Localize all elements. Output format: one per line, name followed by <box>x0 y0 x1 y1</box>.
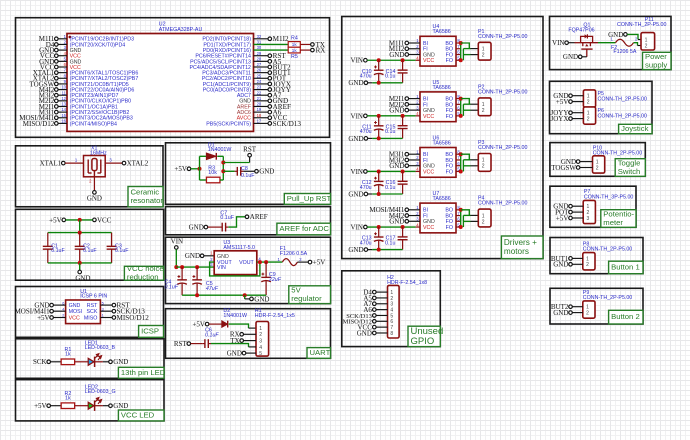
wire VIN to Q1 <box>568 42 580 44</box>
ground GND (power supply) <box>608 31 627 39</box>
node M3I1 (U2 left pin 14) <box>39 109 58 117</box>
svg-text:XTAL1: XTAL1 <box>40 160 62 168</box>
green label Drivers + motors <box>501 236 543 259</box>
svg-text:GPIO: GPIO <box>411 336 435 347</box>
svg-text:GND: GND <box>75 275 90 283</box>
node M3I2 (U6 FI) <box>389 156 409 164</box>
svg-text:+5V: +5V <box>192 321 205 329</box>
section frame MCU <box>16 18 330 138</box>
svg-text:VIN: VIN <box>217 265 226 271</box>
pin 5 GND of U2 <box>64 56 82 65</box>
connector P6 body <box>583 107 647 124</box>
ground GND (P5) <box>553 92 572 100</box>
pin 30 PD0(RXD/PCINT16) of U2 <box>203 45 262 54</box>
svg-text:11: 11 <box>62 90 67 95</box>
node JOYX (U2 right pin 24) <box>268 80 292 88</box>
svg-text:VIN: VIN <box>552 39 564 47</box>
wire U2 pin 29 <box>254 55 269 57</box>
svg-text:22: 22 <box>257 90 262 95</box>
svg-text:R5: R5 <box>291 54 298 60</box>
svg-text:GND: GND <box>553 309 568 317</box>
svg-text:GND: GND <box>389 51 404 59</box>
svg-text:GND: GND <box>348 79 363 87</box>
wire R3 to right rail <box>220 179 223 181</box>
pin 22 ADC7 of U2 <box>237 90 262 99</box>
wire GND tap (5V reg) <box>245 295 250 299</box>
ground GND (U6 pin3) <box>389 162 408 170</box>
svg-text:32: 32 <box>257 34 262 39</box>
motor driver U4 TA6586 body <box>416 24 460 66</box>
wire U6 output stubs <box>456 154 461 171</box>
wire C6 to H1 pin4 <box>211 344 256 347</box>
wire U2 pin 1 <box>58 38 67 40</box>
node M2I1 (U5 BI) <box>389 95 409 103</box>
node M1I2 (U4 FI) <box>389 45 409 53</box>
node RX <box>311 46 326 54</box>
wire C7 to AREF <box>228 217 245 227</box>
svg-text:VIN: VIN <box>351 112 363 120</box>
svg-text:SCK: SCK <box>33 358 47 366</box>
svg-text:GND: GND <box>259 168 274 176</box>
wire U2 pin 20 <box>254 105 269 107</box>
svg-text:SCK/D13: SCK/D13 <box>273 120 302 128</box>
section frame UART <box>166 309 331 359</box>
connector P2 CONN-TH_2P-P5.00 <box>478 85 528 116</box>
wire VCC to H2 pin 7 <box>376 326 387 328</box>
svg-text:2: 2 <box>482 219 485 225</box>
pin 32 PD2(INT0/PCINT18) of U2 <box>202 34 262 43</box>
svg-text:+5V: +5V <box>37 314 50 322</box>
pin 18 AVCC of U2 <box>237 113 262 122</box>
wire U2 pin 5 <box>58 60 67 62</box>
svg-text:VCC LED: VCC LED <box>121 411 155 420</box>
ground GND (UART) <box>227 350 246 358</box>
node JOYY (P6) <box>551 109 573 117</box>
node RST (ICSP) <box>112 302 130 310</box>
svg-text:CONN-TH_2P-P5.00: CONN-TH_2P-P5.00 <box>478 201 528 207</box>
svg-text:RST: RST <box>87 303 98 309</box>
svg-text:LED-0603_B: LED-0603_B <box>85 345 116 351</box>
svg-text:VCC: VCC <box>69 315 80 321</box>
svg-text:4: 4 <box>259 345 262 351</box>
wire cap ground rail (U5) <box>368 136 403 140</box>
wire U2 pin 30 RXD to R5 <box>254 49 289 51</box>
svg-text:M1I2: M1I2 <box>273 35 289 43</box>
svg-text:VCC: VCC <box>423 225 434 231</box>
node GND (U2 left pin 3) <box>39 46 58 54</box>
wire U4 output stubs <box>456 43 461 60</box>
wire Q1 to F2 <box>598 42 616 44</box>
svg-text:FO: FO <box>446 114 453 120</box>
svg-text:RST: RST <box>243 146 257 154</box>
svg-text:ATMEGA328P-AU: ATMEGA328P-AU <box>159 27 203 33</box>
svg-text:Button 2: Button 2 <box>611 312 640 321</box>
ground GND (P8) <box>553 261 572 269</box>
svg-text:GND: GND <box>113 358 128 366</box>
svg-text:CONN-TH_2P-P5.00: CONN-TH_2P-P5.00 <box>593 151 643 157</box>
svg-text:GND: GND <box>113 402 128 410</box>
wire U2 pin 7 <box>58 72 67 74</box>
fuse F2 F1206 5A <box>611 37 639 56</box>
svg-text:3: 3 <box>587 216 590 222</box>
svg-text:CONN-TH_2P-P5.00: CONN-TH_2P-P5.00 <box>583 295 633 301</box>
wire JOYX to P6 pin 2 <box>572 118 583 120</box>
green label Potentiometer <box>601 209 636 227</box>
svg-text:VCC: VCC <box>423 114 434 120</box>
wire RST down <box>249 157 251 163</box>
svg-text:25: 25 <box>257 73 262 78</box>
section frame Pull_Up RST <box>166 143 331 205</box>
svg-text:Pull_Up RST: Pull_Up RST <box>287 194 332 203</box>
wire C8 to GND (pullup) <box>243 170 254 172</box>
wire U2 pin 25 <box>254 77 269 79</box>
svg-text:VIN: VIN <box>351 223 363 231</box>
wire cap ground rail (U7) <box>368 248 403 252</box>
wire U2 pin 14 <box>58 111 67 113</box>
pin 29 PC6/RESET#/PCINT14 of U2 <box>195 51 262 60</box>
green label Button 1 <box>609 261 643 274</box>
capacitor C12 470u <box>360 171 384 194</box>
node BUT2 (U2 right pin 27) <box>268 63 291 71</box>
pin 1 (PCINT19/OC2B/INT1)PD3 of U2 <box>64 34 134 43</box>
wire GND to U7 pin3 <box>409 220 420 222</box>
wire TX to H1 pin3 <box>244 340 257 342</box>
section frame Toggle Switch <box>550 143 645 177</box>
wire cap ground rail (U4) <box>368 81 403 85</box>
capacitor C15 0.1u <box>385 116 408 139</box>
node TOGSW (U2 left pin 9) <box>30 80 59 88</box>
svg-text:VIN: VIN <box>351 57 363 65</box>
wire +5V to VCC rail <box>66 218 93 222</box>
wire U2 pin 28 <box>254 60 269 62</box>
svg-text:MISO: MISO <box>84 315 98 321</box>
svg-text:2: 2 <box>482 108 485 114</box>
svg-text:1N4001W: 1N4001W <box>223 313 247 319</box>
svg-text:FQP47P06: FQP47P06 <box>568 28 594 34</box>
wire ICSP left pin 1 <box>53 310 65 312</box>
connector P9 body <box>583 290 633 318</box>
node D4 (unused GPIO) <box>363 289 376 297</box>
wire R4 to TX <box>300 43 310 45</box>
svg-text:Joystick: Joystick <box>621 124 648 133</box>
wire GND to U4 pin3 <box>409 54 420 56</box>
wire ICSP right pin 1 <box>100 310 112 312</box>
wire U2 pin 9 <box>58 83 67 85</box>
wire M2I2 to U5 pin2 <box>409 103 420 105</box>
capacitor C14 0.1u <box>385 60 408 83</box>
node A6 (U2 right pin 19) <box>268 109 282 117</box>
ground GND (pullup) <box>255 168 275 176</box>
wire U2 pin 2 <box>58 43 67 45</box>
resistor R1 1k <box>61 347 75 364</box>
svg-text:VIN: VIN <box>171 237 183 245</box>
section frame Joystick <box>550 81 653 133</box>
wire bottom rail (5V reg) <box>182 293 266 297</box>
capacitor C17 0.1u <box>385 227 408 250</box>
LED LED1 LED-0603_B <box>85 341 116 367</box>
node VIN (5V reg) <box>171 237 183 249</box>
svg-text:0.1u: 0.1u <box>385 74 395 80</box>
svg-text:10k: 10k <box>208 170 217 176</box>
node XTAL2 (U2 left pin 8) <box>33 75 58 83</box>
svg-text:0.1uF: 0.1uF <box>205 333 219 339</box>
wire JOYY to P6 pin 1 <box>572 112 583 114</box>
wire U2 pin 32 <box>254 38 269 40</box>
svg-text:AREF: AREF <box>250 213 268 221</box>
svg-text:Drivers +: Drivers + <box>504 238 537 247</box>
svg-text:GND: GND <box>348 246 363 254</box>
svg-text:CONN-TH_2P-P5.00: CONN-TH_2P-P5.00 <box>478 145 528 151</box>
wire to GND (VCC noise) <box>79 263 81 270</box>
motor driver U5 TA6586 body <box>416 80 460 122</box>
node M4I2 (U2 left pin 10) <box>39 86 58 94</box>
wire U2 pin 17 <box>254 122 269 124</box>
svg-text:TOGSW: TOGSW <box>551 164 576 172</box>
node +5V (5V reg out) <box>308 259 325 267</box>
svg-text:GND: GND <box>69 303 81 309</box>
section frame AREF for ADC <box>166 207 331 235</box>
resistor R3 10k <box>206 165 220 183</box>
svg-text:CONN-TH_3P-P5.00: CONN-TH_3P-P5.00 <box>584 194 634 200</box>
node M2I2 (U2 left pin 12) <box>39 97 58 105</box>
pin 13 (PCINT1/OC1A)PB1 of U2 <box>61 102 118 111</box>
node MISO/D12 (ICSP) <box>112 314 149 322</box>
ground GND (LED2 row) <box>109 402 129 410</box>
svg-text:UART: UART <box>310 348 331 357</box>
node AREF (AREF for ADC) <box>245 213 268 221</box>
node RST (UART) <box>174 340 191 348</box>
node VIN (U6 row) <box>351 168 368 176</box>
fuse F1 F1206 0.5A <box>278 246 308 266</box>
svg-text:0.1u: 0.1u <box>385 240 395 246</box>
svg-text:5: 5 <box>259 351 262 357</box>
ground GND below X1 <box>87 191 102 203</box>
wire A7 to H2 pin 3 <box>376 303 387 305</box>
green label UART <box>307 348 331 359</box>
wire M2I1 to U5 pin1 <box>409 98 420 100</box>
svg-text:0.1uF: 0.1uF <box>220 215 234 221</box>
svg-text:AREF for ADC: AREF for ADC <box>279 224 329 233</box>
svg-text:F1206 5A: F1206 5A <box>613 49 636 55</box>
wire X1 pin 3 to XTAL2 <box>105 157 122 163</box>
svg-text:2: 2 <box>586 262 589 268</box>
svg-text:2: 2 <box>259 332 262 338</box>
node SCK (LED1 row) <box>33 358 51 366</box>
node MISO/D12 (U2 left pin 16) <box>23 120 58 128</box>
svg-text:2: 2 <box>482 164 485 170</box>
ground GND (P7) <box>553 203 572 211</box>
svg-text:MISO/D12: MISO/D12 <box>23 120 55 128</box>
svg-text:CONN-TH_2P-P5.00: CONN-TH_2P-P5.00 <box>583 247 633 253</box>
svg-text:VOUT: VOUT <box>239 260 254 266</box>
svg-text:TA6586: TA6586 <box>433 140 451 146</box>
svg-text:14: 14 <box>61 107 66 112</box>
wire U2 pin 18 <box>254 117 269 119</box>
node MOSI/M4I1 (ICSP) <box>15 308 54 316</box>
svg-text:VCC: VCC <box>423 58 434 64</box>
node VCC (U2 right pin 18) <box>268 114 288 122</box>
pin 27 PC4/ADC4/SDA/PCINT12 of U2 <box>189 62 261 71</box>
node M3I1 (U6 BI) <box>389 151 409 159</box>
svg-text:VCC: VCC <box>97 216 112 224</box>
svg-text:ICSP 6 PIN: ICSP 6 PIN <box>80 294 107 300</box>
wire U6 BO/FO bus <box>459 152 479 173</box>
connector P7 body <box>583 189 633 223</box>
svg-text:1: 1 <box>259 326 262 332</box>
section frame Drivers + motors <box>342 17 543 259</box>
wire GND to C7 <box>208 226 220 228</box>
wire M3I2 to U6 pin2 <box>409 159 420 161</box>
node TOGSW (P10) <box>551 164 580 172</box>
wire VIN to U6 VCC <box>367 169 420 173</box>
svg-text:FO: FO <box>446 58 453 64</box>
wire M1I1 to U4 pin1 <box>409 42 420 44</box>
green label Power supply <box>643 52 672 70</box>
svg-text:GND: GND <box>563 53 578 61</box>
svg-text:1k: 1k <box>292 42 298 47</box>
svg-text:CONN-TH_2P-P5.00: CONN-TH_2P-P5.00 <box>478 34 528 40</box>
wire VIN to U4 VCC <box>367 58 420 62</box>
green label 5V regulator <box>289 286 331 304</box>
LED LED2 LED-0603_G <box>85 385 116 411</box>
wire R1 to LED1 <box>75 361 89 363</box>
capacitor C6 0.1uF <box>202 328 219 348</box>
section frame Potentiometer <box>550 186 636 227</box>
wire GND to H2 pin 8 <box>376 332 387 334</box>
svg-text:FO: FO <box>446 169 453 175</box>
svg-text:18: 18 <box>257 113 262 118</box>
pin 3 GND of U2 <box>64 45 82 54</box>
green label AREF for ADC <box>277 223 331 235</box>
pin 28 PC5/ADC5/SCL/PCINT13 of U2 <box>190 56 262 65</box>
svg-text:GND: GND <box>608 31 623 39</box>
wire U2 pin 27 <box>254 66 269 68</box>
node SCK/D13 (ICSP) <box>112 308 145 316</box>
node M2I1 (U2 left pin 13) <box>39 103 58 111</box>
ground GND (U3 pin1) <box>185 252 204 260</box>
wire MOSI/M4I1 to U7 pin1 <box>409 209 420 211</box>
ground GND (LED1 row) <box>109 358 129 366</box>
wire R2 to LED2 <box>75 405 89 407</box>
wire SCK to LED1 <box>51 361 62 363</box>
connector H2 HDR-F-2.54_1x8 body <box>387 275 427 338</box>
wire GND to P7 pin 1 <box>572 205 583 207</box>
capacitor C7 0.1uF <box>220 210 235 231</box>
section frame Button 1 <box>550 238 643 274</box>
node +5V (P7) <box>556 214 572 222</box>
svg-text:27: 27 <box>257 62 262 67</box>
wire D1 cathode to right rail <box>217 155 223 157</box>
pin 16 (PCINT4/MISO)PB4 of U2 <box>61 119 117 128</box>
wire LED2 to GND <box>103 405 109 407</box>
wire right rail (pullup) <box>221 156 225 180</box>
node M1I1 (U2 left pin 1) <box>39 35 58 43</box>
op-amp U2 ATMEGA328P-AU chip body <box>67 21 254 131</box>
svg-text:16MHz: 16MHz <box>90 150 107 156</box>
voltage regulator U3 AMS1117-5.0 body <box>210 240 261 275</box>
wire RST to right rail <box>223 162 249 164</box>
node A7 (U2 right pin 22) <box>268 92 282 100</box>
capacitor C16 0.1u <box>385 171 408 194</box>
node POT (U2 right pin 25) <box>268 75 287 83</box>
diode D1 1N4001W <box>206 142 231 159</box>
green label VCC LED <box>118 410 164 421</box>
svg-text:motors: motors <box>504 247 529 256</box>
wire A6 to H2 pin 4 <box>376 309 387 311</box>
svg-text:26: 26 <box>257 68 262 73</box>
connector P1 CONN-TH_2P-P5.00 <box>478 29 528 60</box>
svg-text:SCK: SCK <box>86 309 97 315</box>
wire RST to C6 <box>191 343 203 345</box>
ground GND (U4 pin3) <box>389 51 408 59</box>
svg-text:VCC: VCC <box>423 169 434 175</box>
node GND (unused GPIO) <box>357 329 376 337</box>
node VIN (U4 row) <box>351 57 368 65</box>
wire U2 pin 23 <box>254 89 269 91</box>
diode D2 1N4001W <box>222 308 247 327</box>
node VIN (power supply) <box>552 39 568 47</box>
wire RX to H1 pin2 <box>244 333 257 335</box>
wire Q1 gate to GND <box>582 56 587 58</box>
svg-text:+5V: +5V <box>174 165 187 173</box>
svg-text:GND: GND <box>348 190 363 198</box>
svg-text:1k: 1k <box>65 352 71 358</box>
node MOSI/M4I1 (U7 BI) <box>369 206 408 214</box>
svg-text:GND: GND <box>217 254 229 260</box>
motor driver U6 TA6586 body <box>416 135 460 177</box>
pin 8 (PCINT7/XTAL2/TOSC2)PB7 of U2 <box>64 73 139 82</box>
resistor R4 1k <box>288 36 300 48</box>
wire ICSP right pin 0 <box>100 304 112 306</box>
node GND (U2 right pin 21) <box>268 97 288 105</box>
capacitor C10 470u <box>360 60 384 83</box>
svg-text:0.1uF: 0.1uF <box>51 248 65 254</box>
svg-text:19: 19 <box>257 107 262 112</box>
wire BUT1 to P8 pin 1 <box>572 257 583 259</box>
svg-text:17: 17 <box>257 119 262 124</box>
node BUT1 (U2 right pin 26) <box>268 69 291 77</box>
pin 15 (PCINT3/OC2A/MOSI)PB3 of U2 <box>61 113 133 122</box>
capacitor C4 0.1uF <box>165 267 187 295</box>
wire GND to P10 pin 1 <box>580 161 593 163</box>
svg-text:+5V: +5V <box>49 216 62 224</box>
svg-text:CONN-TH_2P-P5.00: CONN-TH_2P-P5.00 <box>598 113 648 119</box>
wire GND to P5 pin 1 <box>572 95 583 97</box>
pin 19 ADC6 of U2 <box>237 107 262 116</box>
wire U2 pin 6 <box>58 66 67 68</box>
connector P4 CONN-TH_2P-P5.00 <box>478 196 528 227</box>
wire U2 pin 16 <box>58 122 67 124</box>
svg-text:FO: FO <box>446 225 453 231</box>
svg-text:MOSI: MOSI <box>69 309 83 315</box>
svg-text:MISO/D12: MISO/D12 <box>117 314 150 322</box>
node +5V (VCC noise) <box>49 216 65 224</box>
svg-text:22uF: 22uF <box>268 277 282 283</box>
wire U2 pin 12 <box>58 100 67 102</box>
node GND (ICSP) <box>34 302 53 310</box>
svg-text:8: 8 <box>390 331 393 337</box>
svg-text:47uF: 47uF <box>206 286 219 292</box>
wire U2 pin 4 <box>58 55 67 57</box>
wire POT to P7 pin 2 <box>572 211 583 213</box>
wire U2 pin 19 <box>254 111 269 113</box>
svg-text:GND: GND <box>389 107 404 115</box>
connector P10 body <box>593 145 643 173</box>
wire M3I1 to U6 pin1 <box>409 153 420 155</box>
wire GND to P8 pin 2 <box>572 263 583 265</box>
section frame Button 2 <box>550 288 643 324</box>
svg-text:13: 13 <box>61 102 66 107</box>
